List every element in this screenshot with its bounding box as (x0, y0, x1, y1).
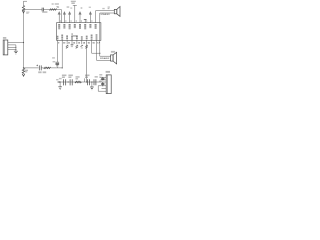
wire R3 to pin10 riser (51, 67, 63, 69)
bottom pin numbers (58, 41, 100, 44)
ground stub between caps (90, 81, 94, 89)
junction dots CN1 (102, 77, 103, 78)
CN1 down-leg wire (98, 86, 106, 91)
capacitor C2 electrolytic (36, 65, 41, 74)
labels near bus arrow (56, 79, 58, 80)
bottom pin 12 stub + marks (71, 40, 74, 47)
top pin 5 (79, 7, 83, 23)
connector J1 (left) (3, 37, 8, 55)
connector CN1 (bottom right) (106, 71, 112, 94)
J1 pin wire 1 to pot line (8, 42, 24, 44)
J1 pins joined (15, 45, 17, 51)
capacitor C8 on bus (94, 76, 98, 85)
ground under J1 (14, 51, 18, 54)
junction dots J1 (15, 47, 16, 48)
svg-text:SPEAKER: SPEAKER (100, 57, 110, 60)
bottom pin name labels inside IC (58, 34, 97, 40)
capacitor C5 on bus (62, 75, 67, 86)
top pin 7 (89, 7, 92, 23)
capacitor C7 on bus (85, 75, 90, 86)
bottom pin 11 stub + marks (66, 40, 68, 48)
resistor R2 (49, 3, 59, 10)
wire C1 to R2 (43, 9, 49, 11)
resistor R4 vertical (22, 68, 28, 74)
arrow left end of bus (57, 81, 59, 83)
wire pot wiper right (25, 9, 42, 11)
junction dot riser (62, 67, 63, 68)
wire LS1 bottom return (100, 13, 115, 56)
potentiometer RV1 (22, 1, 29, 14)
bottom pin 10 wire to input chain (61, 40, 63, 68)
top pin numbers (60, 20, 92, 22)
small cap CB between CN1 pins (99, 77, 104, 86)
wire LS2 top from return (100, 55, 111, 57)
junction dot return/pin16 (99, 53, 100, 54)
top pin 1 (57, 7, 61, 23)
bottom pin 17 wire to speaker LS2 bottom (97, 40, 111, 60)
speaker LS2 (bottom right) (111, 51, 117, 64)
bus wire (bottom) (57, 81, 106, 83)
IC U1 refdes blob (71, 33, 73, 34)
capacitor C1 input coupling (42, 8, 47, 13)
J1 pin wires 2-4 (8, 45, 16, 50)
top pin 6 stub (84, 20, 87, 23)
junction dot chain (23, 67, 24, 68)
bottom pin 16 wire to return line (92, 40, 100, 53)
resistor R5 on bus (75, 76, 81, 83)
IC U1 body (57, 23, 101, 41)
top pin 3 (68, 7, 72, 22)
wire C2 to R3 (41, 67, 44, 69)
wire pot body down (23, 10, 25, 68)
riser stub on bus (83, 78, 85, 82)
CN1 pin wires (98, 77, 106, 88)
bottom pin 13 stub + marks (76, 40, 78, 48)
input chain wire (24, 67, 39, 69)
ground stub on bus (58, 81, 62, 89)
svg-text:SPEAKER: SPEAKER (100, 13, 110, 16)
small cap CA between CN1 pins (99, 74, 104, 80)
junction dot on bus (68, 81, 69, 82)
bottom pin 9 wire to C4 and ground (52, 40, 59, 67)
speaker LS1 (top right) (108, 7, 120, 17)
marks at pin 15 (85, 45, 87, 48)
junction dot pin15/bus (86, 81, 87, 82)
wire R2 to bend (57, 10, 62, 23)
top pin 4 power flag (71, 1, 77, 23)
arrow down under R4 (22, 74, 25, 77)
resistor R3 (43, 67, 51, 73)
bottom pin 15 wire to bus (86, 40, 88, 82)
capacitor C6 on bus (68, 75, 73, 86)
bottom pin 14 stub + marks (81, 40, 83, 48)
top pin 2 (63, 6, 69, 22)
junction dot J1/pot (23, 42, 24, 43)
IC U1 value blob (71, 35, 77, 36)
top pin 8 wire to speaker LS1 (96, 11, 115, 23)
top pin name labels inside IC (59, 24, 95, 29)
